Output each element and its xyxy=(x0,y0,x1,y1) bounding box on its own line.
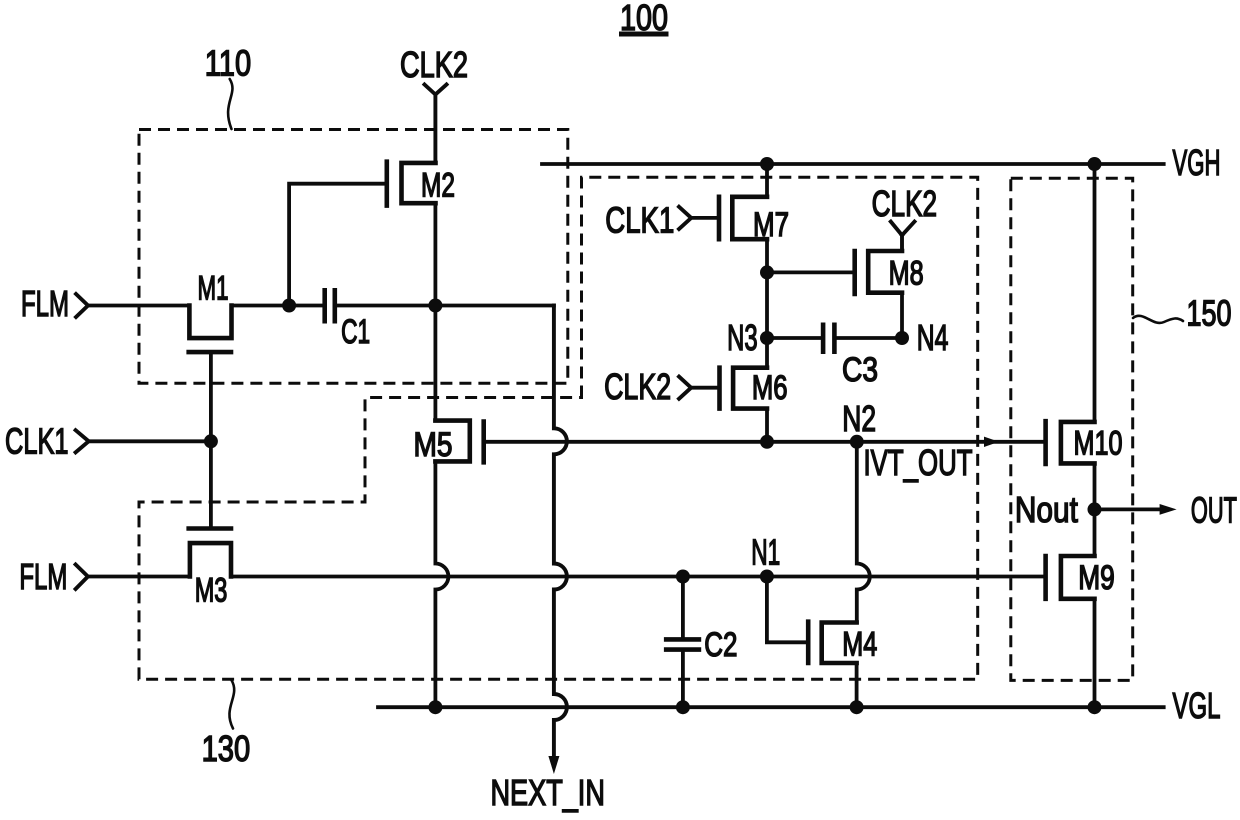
svg-text:NEXT_IN: NEXT_IN xyxy=(491,772,605,813)
wire C3 to N4 xyxy=(834,336,903,340)
leader 110 xyxy=(228,79,232,129)
svg-text:M7: M7 xyxy=(753,206,789,244)
wire N2 down with hop to M4 xyxy=(857,442,870,623)
node M8 gate dot xyxy=(760,265,774,279)
svg-text:C3: C3 xyxy=(842,351,878,389)
wire CLK2 stem to M8 xyxy=(900,235,904,251)
svg-text:N3: N3 xyxy=(727,317,758,358)
wire IVT_OUT line from M5 gate to M10 gate xyxy=(484,440,1046,444)
arrow OUT xyxy=(1160,504,1177,515)
svg-text:CLK2: CLK2 xyxy=(604,366,671,407)
wire CLK2 to M6 gate xyxy=(691,386,719,390)
wire CLK1 to gate node xyxy=(89,439,212,443)
dashed box 150 xyxy=(1011,178,1133,680)
transistor M6 xyxy=(720,368,788,409)
wire OUT xyxy=(1095,507,1164,511)
wire M9 source to VGL xyxy=(1093,599,1097,707)
arrow IVT into M10 xyxy=(984,437,999,447)
svg-text:M10: M10 xyxy=(1074,425,1123,463)
svg-text:N1: N1 xyxy=(751,532,780,573)
transistor M7 xyxy=(719,197,789,244)
svg-text:M2: M2 xyxy=(421,167,455,205)
svg-text:FLM: FLM xyxy=(19,556,67,597)
wire VGL line xyxy=(378,705,1164,709)
wire FLM to M1 xyxy=(88,304,189,308)
dashed box 110 xyxy=(139,130,568,384)
node C2 top dot xyxy=(676,570,690,584)
arrow NEXT_IN xyxy=(548,756,559,774)
svg-text:N2: N2 xyxy=(842,398,876,439)
wire M10 drain from VGH xyxy=(1093,164,1097,422)
svg-text:M6: M6 xyxy=(752,369,788,407)
node M4-VGL dot xyxy=(850,700,864,714)
svg-text:M8: M8 xyxy=(889,255,924,293)
terminal CLK2 top xyxy=(400,44,468,95)
wire M10 source to Nout xyxy=(1093,463,1097,556)
capacitor C2 xyxy=(664,577,738,707)
svg-text:IVT_OUT: IVT_OUT xyxy=(864,442,973,483)
svg-text:110: 110 xyxy=(205,43,251,84)
svg-text:150: 150 xyxy=(1187,293,1232,334)
capacitor C1 xyxy=(325,288,370,351)
wire M5 source down to VGL with hop xyxy=(435,461,448,707)
node VGH-M10 dot xyxy=(1088,157,1102,171)
dashed box 130 xyxy=(139,177,978,679)
terminal FLM lower xyxy=(19,556,88,597)
wire C1 to node B and corner to NEXT_IN line xyxy=(335,304,554,308)
wire M1 to C1 xyxy=(232,304,325,308)
node N2 dot xyxy=(850,435,864,449)
svg-text:M4: M4 xyxy=(842,626,877,664)
node N4 dot xyxy=(895,331,909,345)
wire N1 line M3 to M9 gate xyxy=(231,575,1046,579)
leader 130 xyxy=(229,680,234,729)
node Nout dot xyxy=(1088,502,1102,516)
svg-text:FLM: FLM xyxy=(21,283,69,324)
node CLK1 dot xyxy=(204,434,218,448)
svg-text:C2: C2 xyxy=(704,626,737,664)
wire M8 gate lead xyxy=(767,270,855,274)
wire NEXT_IN vertical with hops xyxy=(554,306,567,759)
svg-text:M5: M5 xyxy=(414,426,453,464)
wire M4 source to VGL xyxy=(855,663,859,707)
node N3 dot xyxy=(760,331,774,345)
wire FLM to M3 xyxy=(88,575,190,579)
wire N3 to C3 xyxy=(767,336,823,340)
node VGH-M7 dot xyxy=(760,157,774,171)
wire gate stem to M3 xyxy=(209,441,213,528)
wire M2 drain down to M5 xyxy=(433,203,437,420)
node M6-IVT dot xyxy=(760,435,774,449)
transistor M10 xyxy=(1046,421,1123,464)
leader 150 xyxy=(1133,316,1183,323)
svg-text:130: 130 xyxy=(202,728,251,769)
wire CLK2 stem to M2 xyxy=(433,95,437,163)
svg-text:CLK2: CLK2 xyxy=(400,44,468,85)
terminal CLK1 mid xyxy=(605,200,691,241)
svg-text:M9: M9 xyxy=(1078,559,1115,597)
svg-text:M1: M1 xyxy=(198,269,229,307)
wire M7 drain xyxy=(765,164,769,197)
transistor M9 xyxy=(1046,556,1115,599)
transistor M5 xyxy=(414,421,484,464)
svg-text:Nout: Nout xyxy=(1015,489,1078,530)
svg-text:N4: N4 xyxy=(917,317,949,358)
capacitor C3 xyxy=(823,323,878,390)
terminal CLK2 mid xyxy=(872,183,938,235)
svg-text:M3: M3 xyxy=(195,572,228,610)
terminal CLK2 lower xyxy=(604,366,691,407)
node C2-VGL dot xyxy=(676,700,690,714)
wire M6 source down to IVT line xyxy=(765,409,769,442)
transistor M1 xyxy=(189,269,232,352)
transistor M3 xyxy=(189,529,231,610)
terminal FLM upper xyxy=(21,283,88,324)
wire M8 source to N4 xyxy=(900,293,904,338)
node M5-VGL dot xyxy=(428,700,442,714)
svg-text:C1: C1 xyxy=(341,313,370,351)
terminal CLK1 left xyxy=(5,420,89,461)
svg-text:VGH: VGH xyxy=(1173,142,1221,183)
wire VGH line xyxy=(542,162,1164,166)
node B dot xyxy=(428,299,442,313)
svg-text:CLK2: CLK2 xyxy=(872,183,938,224)
svg-text:CLK1: CLK1 xyxy=(5,420,69,461)
svg-text:CLK1: CLK1 xyxy=(605,200,674,241)
svg-text:OUT: OUT xyxy=(1191,490,1237,531)
svg-text:VGL: VGL xyxy=(1173,685,1221,726)
wire M1 gate stem down to CLK1 node xyxy=(209,352,213,441)
node A dot xyxy=(282,299,296,313)
title 100 xyxy=(619,0,669,38)
wire CLK1 to M7 gate xyxy=(691,216,719,220)
wire M2 gate to node A xyxy=(289,184,387,306)
node M9-VGL dot xyxy=(1088,700,1102,714)
wire N1 to M4 gate xyxy=(767,577,808,643)
node N1 dot xyxy=(760,570,774,584)
transistor M4 xyxy=(808,622,877,664)
wire M7 source down (through M8 gate node and N3) xyxy=(765,239,769,368)
transistor M2 xyxy=(387,162,455,206)
transistor M8 xyxy=(855,251,924,294)
